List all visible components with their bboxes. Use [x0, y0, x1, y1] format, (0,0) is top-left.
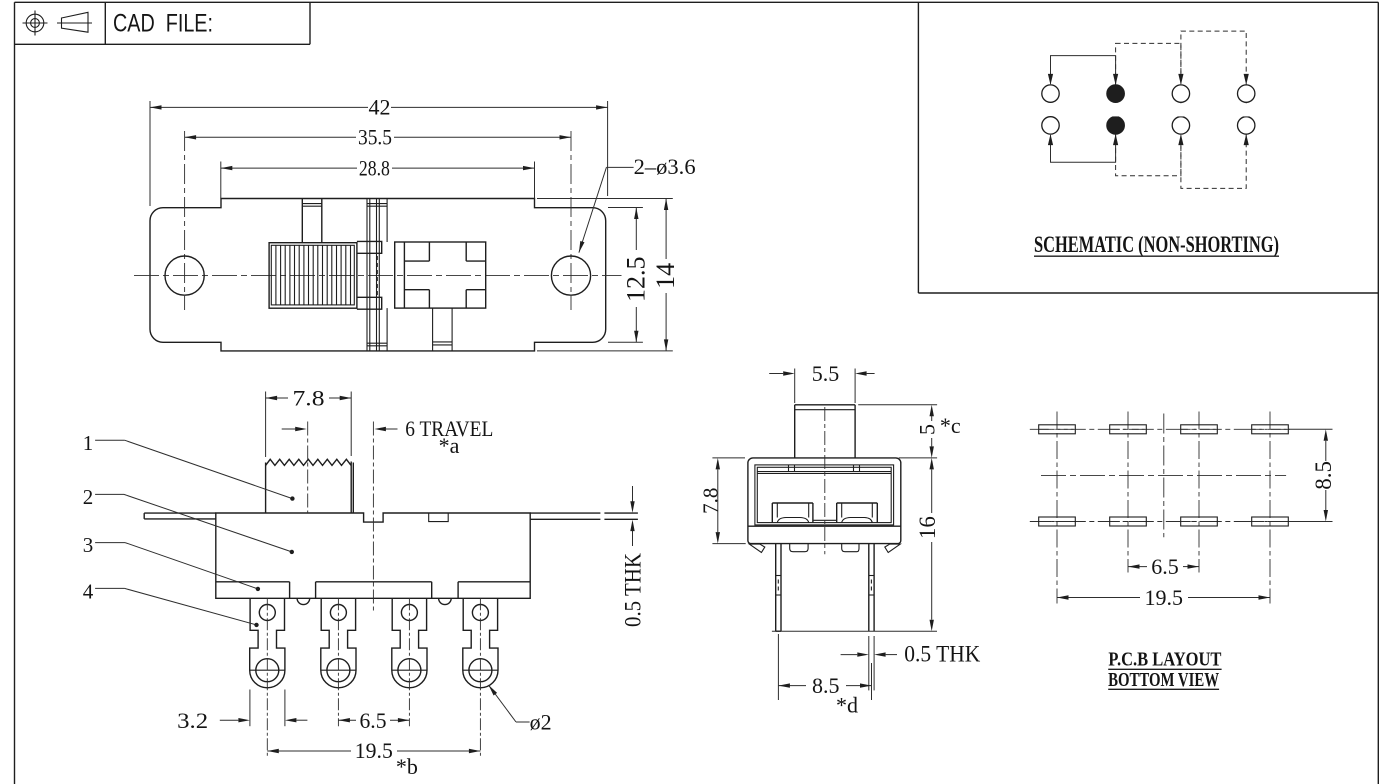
dimension 5 extension line bottom: [899, 457, 937, 459]
pcb pad slot 4: [1252, 425, 1289, 434]
schematic box outline: [918, 2, 1378, 293]
pcb pad slot 5: [1039, 517, 1076, 526]
pcb middle horizontal centerline: [1041, 474, 1286, 476]
dimension 3.2: [177, 708, 307, 733]
schematic dashed position box 1: [1116, 43, 1181, 175]
side view body outline: [748, 458, 901, 544]
svg-text:35.5: 35.5: [358, 125, 392, 150]
side view left lead: [776, 544, 781, 632]
schematic contact terminal B2 (common, closed): [1107, 117, 1124, 134]
top view contact carrier cross piece: [395, 242, 486, 308]
front view body outline: [216, 513, 530, 598]
dimension 7.8 extension lines: [266, 392, 352, 458]
svg-text:19.5: 19.5: [355, 738, 393, 763]
svg-text:7.8: 7.8: [699, 488, 723, 514]
schematic wire bottom bracket pole 1: [1051, 135, 1116, 162]
third-angle projection symbol: target circle: [23, 11, 48, 36]
dimension 42 extension lines: [150, 101, 608, 206]
svg-text:6.5: 6.5: [360, 708, 387, 733]
top view actuator stem: [302, 199, 322, 243]
dimension 7.8 side view: [699, 458, 746, 544]
dimension 14: [651, 199, 680, 351]
schematic inter-circle whiteout: [1113, 103, 1249, 116]
top view knob knurl inner rectangle: [271, 245, 354, 305]
svg-text:SCHEMATIC (NON-SHORTING): SCHEMATIC (NON-SHORTING): [1034, 232, 1279, 257]
top view lower stem: [433, 308, 453, 351]
dimension 5: [914, 405, 939, 458]
side view left bent tab: [749, 544, 765, 553]
top view knob knurl lines: [276, 245, 351, 305]
top view frame cross-section lines: [367, 199, 387, 351]
svg-text:6.5: 6.5: [1151, 554, 1179, 579]
svg-text:5.5: 5.5: [812, 361, 840, 386]
dimension 5 extension line top: [858, 404, 937, 406]
front view body centerline: [372, 422, 374, 613]
title text CAD FILE:: [113, 10, 213, 38]
dimension 14 extension lines: [537, 199, 673, 351]
pcb pad slot 8: [1252, 517, 1289, 526]
dimension 6.5 front view: [338, 708, 409, 733]
svg-text:P.C.B LAYOUT: P.C.B LAYOUT: [1108, 649, 1222, 671]
dimension 16 extension line bottom: [772, 630, 937, 632]
leader 1 knob: [83, 431, 295, 501]
svg-text:42: 42: [369, 95, 391, 120]
pcb pad slot 3: [1181, 425, 1218, 434]
pcb title BOTTOM VIEW: [1108, 669, 1219, 691]
dimension 7.8: [266, 385, 352, 410]
pcb middle vertical centerline: [1163, 414, 1165, 538]
svg-text:2: 2: [83, 485, 94, 509]
side view right lead: [869, 544, 874, 632]
schematic arrowheads into top row: [1048, 74, 1249, 85]
dimension 28.8: [221, 155, 535, 180]
label o2 with leader: [489, 685, 552, 734]
dimension 8.5 side view: [778, 634, 871, 700]
svg-text:19.5: 19.5: [1144, 585, 1183, 610]
svg-text:ø2: ø2: [530, 709, 552, 734]
side view base plate line: [748, 525, 901, 527]
schematic contact terminal C2: [1172, 117, 1189, 134]
leader 3 base: [83, 533, 260, 591]
front view knob sides: [266, 462, 354, 514]
leader 4 terminal: [83, 580, 259, 628]
svg-text:4: 4: [83, 580, 94, 604]
pcb pad slot 2: [1110, 425, 1147, 434]
label 2-o3.6 with leader: [579, 154, 696, 253]
dimension 35.5: [185, 125, 571, 150]
schematic contact terminal D2: [1238, 117, 1255, 134]
pcb row 2 centerline: [1030, 521, 1290, 523]
dimension 6 TRAVEL arrows: [282, 427, 398, 431]
front view left flange 0.5 THK: [144, 513, 216, 519]
schematic arrowheads into bottom row: [1048, 134, 1249, 145]
schematic contact terminal C1: [1172, 85, 1189, 102]
side view right bent tab: [885, 544, 901, 553]
front view terminal pin 1: [250, 598, 285, 688]
svg-text:14: 14: [651, 263, 680, 289]
front view terminal pin 3: [392, 598, 427, 688]
svg-text:*d: *d: [836, 693, 858, 718]
right mounting hole: [551, 256, 590, 295]
svg-text:*a: *a: [439, 433, 460, 458]
leader 2 body: [83, 485, 294, 554]
svg-text:12.5: 12.5: [622, 256, 651, 302]
schematic title SCHEMATIC (NON-SHORTING): [1034, 232, 1279, 257]
pcb column centerlines: [1057, 412, 1270, 604]
schematic contact terminal B1 (common, closed): [1107, 85, 1124, 102]
front view base plate line segments: [216, 582, 530, 599]
side view right contact bump: [837, 503, 878, 523]
top view knob side tabs: [357, 241, 382, 309]
svg-text:CAD FILE:: CAD FILE:: [113, 10, 213, 38]
svg-text:16: 16: [915, 516, 940, 539]
svg-text:7.8: 7.8: [293, 385, 325, 410]
schematic wire top bracket pole 1: [1051, 56, 1116, 84]
dimension 16: [915, 458, 940, 631]
pcb pad slot 6: [1110, 517, 1147, 526]
third-angle projection symbol: truncated cone: [57, 12, 92, 32]
right mounting hole centerline: [570, 131, 572, 310]
side view left contact bump: [772, 503, 813, 523]
front view rivet bump right: [439, 598, 452, 604]
dimension 6.5 pcb: [1128, 554, 1199, 579]
svg-text:1: 1: [83, 431, 94, 455]
dimension 5.5 extension lines: [795, 369, 855, 404]
dimension 12.5: [622, 208, 651, 343]
title block box: [15, 2, 311, 44]
top view knob outer rectangle: [269, 243, 357, 309]
svg-text:0.5 THK: 0.5 THK: [620, 553, 645, 627]
svg-text:8.5: 8.5: [1311, 461, 1336, 490]
dimension 8.5 pcb extension lines: [1289, 429, 1333, 521]
dimension 19.5 pcb: [1057, 585, 1270, 610]
left mounting hole centerline: [184, 131, 186, 310]
top view horizontal centerline: [134, 275, 622, 277]
schematic contact terminal D1: [1238, 85, 1255, 102]
front view knob centerline: [307, 422, 309, 514]
svg-text:28.8: 28.8: [359, 155, 390, 180]
dimension 5.5: [769, 361, 874, 386]
side view inner frame: [755, 465, 894, 525]
front view rivet bump left: [297, 598, 310, 604]
svg-text:BOTTOM VIEW: BOTTOM VIEW: [1108, 669, 1219, 691]
dimension 19.5 front view: [267, 738, 480, 763]
pcb pad slot 1: [1039, 425, 1076, 434]
pcb pad slot 7: [1181, 517, 1218, 526]
side view middle foot right: [842, 544, 859, 552]
side view centerline: [824, 407, 826, 554]
dimension 12.5 extension lines: [608, 208, 643, 343]
dimension 0.5 THK front view: [620, 486, 645, 627]
side view middle foot left: [790, 544, 808, 552]
dimension 28.8 extension lines: [221, 162, 535, 199]
left mounting hole: [165, 256, 204, 295]
dimension 42: [150, 95, 608, 120]
front view terminal pin 4: [463, 598, 498, 688]
side view actuator stem: [795, 405, 855, 458]
svg-text:0.5 THK: 0.5 THK: [904, 642, 980, 667]
svg-text:*c: *c: [940, 413, 961, 438]
front view pin centerlines: [267, 598, 480, 757]
top view body outline: [150, 199, 606, 351]
dimension 8.5 pcb: [1311, 429, 1336, 521]
svg-text:3: 3: [83, 533, 94, 557]
dimension 3.2 extension lines: [250, 690, 285, 727]
front view hidden slot under top edge: [429, 513, 449, 522]
schematic contact terminal A1: [1042, 85, 1059, 102]
schematic dashed position box 2: [1181, 31, 1246, 188]
pcb title P.C.B LAYOUT: [1108, 649, 1222, 671]
svg-text:3.2: 3.2: [177, 708, 208, 733]
pcb row 1 centerline: [1030, 428, 1290, 430]
svg-text:2–ø3.6: 2–ø3.6: [634, 154, 696, 179]
side view slider bottom line in gap: [813, 519, 837, 521]
front view knob serrated top: [266, 459, 352, 465]
schematic contact terminal A2: [1042, 117, 1059, 134]
front view terminal pin 2: [321, 598, 356, 688]
front view right flange 0.5 THK: [530, 513, 638, 519]
svg-text:5: 5: [914, 424, 939, 435]
dimension 0.5 THK side view: [841, 636, 981, 690]
svg-text:*b: *b: [396, 754, 418, 779]
